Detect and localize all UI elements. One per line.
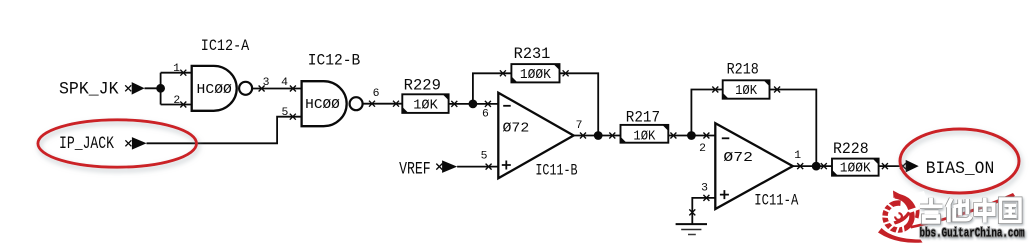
- R229 left terminal mark: [393, 101, 399, 107]
- svg-text:3: 3: [701, 183, 708, 195]
- op-amp IC11-A minus sign: [722, 137, 730, 139]
- wire VREF to IC11-B pin 5: [457, 166, 498, 168]
- beak: [893, 191, 902, 199]
- svg-text:IC12-A: IC12-A: [201, 37, 250, 55]
- wire feedback right leg R231: [560, 73, 599, 135]
- svg-text:5: 5: [281, 107, 288, 119]
- op-amp IC11-A plus sign: [720, 190, 729, 199]
- pin 1 mark IC12-A: [180, 70, 186, 76]
- resistor R218 body: [723, 80, 770, 98]
- svg-text:HCØØ: HCØØ: [305, 97, 340, 113]
- svg-text:R228: R228: [833, 140, 869, 158]
- pin 7 mark IC11-B output: [580, 133, 586, 139]
- pin 2 mark IC12-A: [180, 102, 186, 108]
- resistor R228 body: [832, 159, 879, 176]
- junction node IC11-B output: [594, 131, 603, 140]
- svg-text:VREF: VREF: [399, 159, 431, 179]
- dragon body ring: [885, 203, 912, 230]
- ground stem mark: [689, 209, 695, 215]
- input port arrow IP_JACK: [125, 137, 146, 150]
- junction node IC11-A output: [812, 162, 821, 171]
- svg-text:R217: R217: [626, 108, 660, 126]
- char 国: [1001, 199, 1021, 222]
- R228 right terminal mark: [882, 163, 888, 169]
- pin 1 mark IC11-A output: [797, 163, 803, 169]
- jaw swoosh inside ring: [894, 212, 911, 225]
- wire IC11-A pin 3 to ground: [692, 198, 715, 224]
- op-amp IC11-B minus sign: [503, 105, 511, 107]
- resistor R229 body: [402, 94, 448, 113]
- resistor R217 body: [621, 125, 669, 143]
- output port arrow BIAS_ON: [900, 160, 919, 173]
- svg-text:1ØK: 1ØK: [633, 129, 656, 145]
- wire feedback left leg R218: [691, 90, 722, 136]
- wire feedback left leg R231: [473, 73, 512, 104]
- wire SPK_JK to junction: [145, 87, 161, 89]
- NAND gate IC12-A body: [192, 66, 237, 111]
- red annotation ellipse around IP_JACK: [38, 120, 197, 167]
- svg-text:IC11-A: IC11-A: [754, 192, 798, 210]
- wire IC11-A output to R228: [793, 165, 832, 167]
- wire to IC12-A pin 1: [161, 72, 192, 74]
- wire IC12-B output to R229: [363, 103, 403, 105]
- white inner disc: [893, 211, 905, 223]
- head horn: [895, 194, 916, 211]
- svg-text:IP_JACK: IP_JACK: [59, 134, 114, 154]
- junction node at IC11-A input: [687, 131, 696, 140]
- svg-text:2: 2: [699, 143, 706, 155]
- char 吉: [920, 198, 943, 222]
- op-amp IC11-B body: [498, 93, 573, 179]
- R217 right terminal mark: [670, 133, 676, 139]
- svg-text:2: 2: [173, 95, 180, 107]
- svg-text:4: 4: [281, 77, 288, 89]
- resistor R231 body: [511, 64, 559, 82]
- svg-text:1ØK: 1ØK: [735, 83, 758, 99]
- R217 left terminal mark: [609, 133, 615, 139]
- red annotation ellipse around BIAS_ON: [900, 129, 1019, 193]
- svg-text:1: 1: [173, 63, 180, 75]
- pin 4 mark IC12-B: [290, 86, 296, 92]
- watermark logo dragon: [875, 191, 1015, 243]
- svg-text:IC12-B: IC12-B: [308, 52, 361, 70]
- pin 6 mark IC11-B: [485, 101, 491, 107]
- watermark text 吉他中国: [920, 198, 1025, 241]
- pin 3 mark IC12-A output: [259, 86, 265, 92]
- svg-text:1ØØK: 1ØØK: [840, 161, 872, 177]
- pin 6 mark IC12-B output: [369, 101, 375, 107]
- op-amp IC11-A body: [715, 123, 793, 209]
- pin 2 mark IC11-A: [703, 133, 709, 139]
- NAND gate IC12-B body: [302, 81, 347, 126]
- wire IP_JACK to IC12-B pin 5: [147, 117, 302, 144]
- svg-text:Ø72: Ø72: [723, 150, 753, 166]
- ring opening top right: [900, 191, 930, 217]
- char 他: [947, 199, 971, 223]
- svg-text:R231: R231: [514, 45, 551, 63]
- wire IC11-B output to R217: [574, 135, 621, 137]
- NAND gate IC12-B output bubble: [350, 97, 363, 110]
- long tail swoosh behind text: [910, 193, 1015, 229]
- svg-text:1ØØK: 1ØØK: [520, 67, 552, 83]
- wire R217 to IC11-A pin 2: [668, 135, 715, 137]
- svg-text:BIAS_ON: BIAS_ON: [926, 159, 995, 179]
- junction node SPK_JK: [156, 84, 165, 93]
- R231 left terminal mark: [500, 70, 506, 76]
- svg-text:6: 6: [373, 88, 380, 100]
- wing crescent right of head: [914, 196, 920, 219]
- R228 left terminal mark: [821, 163, 827, 169]
- wire R229 to IC11-B pin 6: [449, 103, 499, 105]
- svg-text:6: 6: [482, 108, 489, 120]
- svg-text:Ø72: Ø72: [503, 120, 530, 136]
- pin 3 mark IC11-A: [703, 195, 709, 201]
- svg-text:1: 1: [794, 150, 801, 162]
- NAND gate IC12-A output bubble: [239, 82, 252, 95]
- svg-text:R229: R229: [404, 77, 441, 95]
- svg-text:3: 3: [263, 77, 270, 89]
- input port arrow SPK_JK: [125, 82, 144, 95]
- svg-text:R218: R218: [727, 60, 759, 78]
- wire input bracket vertical: [160, 73, 162, 105]
- tail crescent bottom: [878, 228, 923, 243]
- red centre swirl: [894, 212, 903, 221]
- ground: [676, 224, 707, 234]
- R218 left terminal mark: [712, 87, 718, 93]
- char 中: [976, 198, 994, 223]
- white mane teeth: [877, 202, 905, 238]
- pin 5 mark IC12-B: [290, 114, 296, 120]
- wire feedback right leg R218: [770, 90, 817, 167]
- junction node at IC11-B input: [469, 100, 478, 109]
- svg-text:5: 5: [481, 151, 488, 163]
- svg-text:1ØK: 1ØK: [413, 97, 438, 113]
- wire IC12-A output to IC12-B pin 4: [252, 88, 302, 90]
- input port arrow VREF: [436, 160, 457, 173]
- R218 right terminal mark: [774, 87, 780, 93]
- pin 5 mark IC11-B: [486, 164, 492, 170]
- svg-text:bbs.GuitarChina.com: bbs.GuitarChina.com: [920, 225, 1025, 240]
- svg-text:IC11-B: IC11-B: [535, 161, 577, 179]
- op-amp IC11-B plus sign: [502, 161, 511, 170]
- svg-text:SPK_JK: SPK_JK: [59, 79, 119, 99]
- wire R228 to BIAS_ON port: [879, 165, 903, 167]
- R229 right terminal mark: [451, 101, 457, 107]
- svg-text:HCØØ: HCØØ: [197, 82, 232, 98]
- wire to IC12-A pin 2: [161, 104, 192, 106]
- svg-text:7: 7: [576, 120, 583, 132]
- R231 right terminal mark: [563, 70, 569, 76]
